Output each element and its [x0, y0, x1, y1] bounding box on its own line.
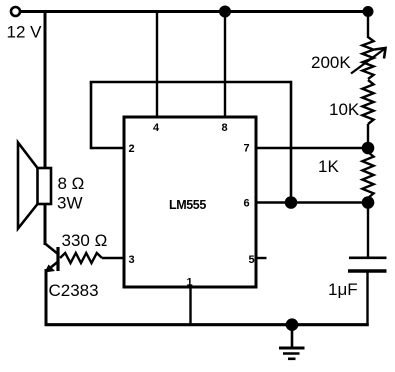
label 1K — [318, 157, 339, 176]
label 1uF — [328, 280, 358, 299]
wire loop vertical left — [90, 82, 93, 149]
label 330 ohm — [62, 231, 108, 250]
wire pin 6 — [256, 201, 368, 203]
svg-text:1μF: 1μF — [328, 280, 358, 299]
wire pin 1 to bottom rail — [189, 287, 191, 325]
svg-text:7: 7 — [244, 143, 250, 155]
pin label 3 — [129, 254, 135, 266]
wire top rail — [20, 10, 369, 13]
wire 330 to pin 3 — [102, 257, 124, 259]
svg-text:3: 3 — [129, 254, 135, 266]
resistor 1K — [362, 152, 373, 198]
label C2383 — [49, 281, 99, 300]
resistor 10K — [362, 80, 373, 124]
svg-text:12 V: 12 V — [7, 23, 43, 42]
wire pin 5 stub — [256, 257, 267, 259]
junction dot pin6 node — [285, 196, 298, 209]
label 200K — [311, 53, 351, 72]
label LM555 — [169, 198, 206, 212]
label 3W — [57, 194, 83, 213]
wire capacitor to bottom rail — [366, 272, 368, 326]
wire pin 7 to divider — [256, 147, 368, 149]
speaker LS1 — [18, 143, 51, 229]
svg-text:3W: 3W — [57, 194, 83, 213]
pin label 1 — [187, 277, 193, 289]
ground — [279, 325, 305, 359]
wire 1K to node — [367, 198, 369, 203]
wire 10K to node — [367, 124, 369, 152]
svg-text:LM555: LM555 — [169, 198, 206, 212]
wire loop vertical right pin2-pin6 — [290, 81, 293, 203]
op IC U1 LM555 box — [124, 117, 256, 287]
wire speaker to transistor collector — [44, 203, 47, 245]
junction dot pin7 node — [362, 142, 375, 155]
wire node to capacitor — [367, 203, 369, 257]
terminal 12V supply — [11, 7, 20, 16]
wire emitter to bottom rail — [45, 269, 48, 326]
junction dot ground node — [286, 318, 299, 331]
wire pin 2 — [91, 147, 124, 150]
svg-text:4: 4 — [153, 122, 160, 134]
junction dot pin8/top rail — [219, 6, 231, 18]
svg-text:1K: 1K — [318, 157, 339, 176]
svg-text:C2383: C2383 — [49, 281, 99, 300]
label 10K — [329, 100, 360, 119]
svg-text:2: 2 — [129, 143, 135, 155]
resistor 330 ohm — [60, 253, 102, 263]
wire loop horizontal — [90, 81, 291, 84]
junction dot top right — [363, 6, 374, 17]
wire right rail top — [367, 12, 369, 39]
wire bottom rail — [45, 323, 369, 326]
pin label 2 — [129, 143, 135, 155]
svg-text:330 Ω: 330 Ω — [62, 231, 108, 250]
svg-text:200K: 200K — [311, 53, 351, 72]
pin label 8 — [222, 122, 228, 134]
wire pin 4 to top rail — [156, 12, 158, 118]
svg-text:6: 6 — [244, 198, 250, 210]
label 8 ohm — [58, 174, 85, 193]
junction dot pin6/1K node — [362, 196, 375, 209]
svg-text:8: 8 — [222, 122, 228, 134]
label 12 V — [7, 23, 43, 42]
wire pin 8 to top rail — [224, 12, 226, 118]
pin label 6 — [244, 198, 250, 210]
pin label 4 — [153, 122, 160, 134]
wire left rail to speaker — [44, 10, 47, 169]
svg-text:10K: 10K — [329, 100, 360, 119]
pin label 5 — [249, 254, 255, 266]
svg-text:1: 1 — [187, 277, 193, 289]
potentiometer 200K — [351, 37, 386, 79]
svg-text:5: 5 — [249, 254, 255, 266]
pin label 7 — [244, 143, 250, 155]
capacitor C1 1uF — [348, 258, 387, 271]
svg-text:8 Ω: 8 Ω — [58, 174, 85, 193]
transistor Q1 C2383 — [45, 244, 59, 273]
